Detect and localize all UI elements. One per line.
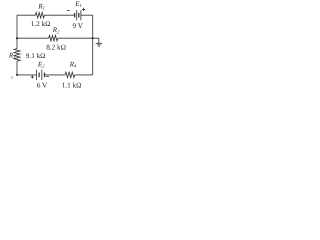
svg-text:9 V: 9 V (73, 22, 84, 30)
svg-text:9.1 kΩ: 9.1 kΩ (26, 52, 46, 60)
junction at right middle rail (92, 37, 94, 39)
svg-text:R2: R2 (52, 26, 60, 35)
wire top rail left segment (17, 14, 35, 16)
wire left vertical upper (16, 15, 18, 48)
svg-text:E2: E2 (37, 60, 45, 69)
resistor R2 (49, 36, 58, 41)
resistor R4 (65, 72, 75, 77)
wire top rail right segment (81, 14, 93, 16)
resistor R3 (14, 49, 20, 61)
svg-text:1.2 kΩ: 1.2 kΩ (31, 20, 51, 28)
svg-text:R1: R1 (37, 2, 45, 11)
wire middle rail left segment (17, 37, 49, 39)
svg-text:E1: E1 (74, 0, 82, 9)
wire ground branch (93, 38, 99, 43)
wire bottom rail left segment (17, 74, 36, 76)
wire bottom rail middle segment (45, 74, 66, 76)
svg-text:8.2 kΩ: 8.2 kΩ (46, 43, 66, 51)
svg-text:R4: R4 (69, 60, 77, 69)
wire left vertical lower (16, 61, 18, 75)
battery E1 plus sign (82, 8, 85, 11)
wire middle rail right segment (58, 37, 93, 39)
wire bottom rail right segment (75, 74, 93, 76)
svg-text:6 V: 6 V (37, 82, 48, 90)
battery E2 minus sign (46, 76, 49, 78)
resistor R1 (35, 13, 44, 18)
battery E1 (74, 13, 76, 18)
battery E2 (35, 70, 37, 80)
wire top rail middle segment (44, 14, 74, 16)
junction node a (16, 74, 18, 76)
wire right vertical (92, 15, 94, 75)
junction at left middle rail (16, 37, 18, 39)
svg-text:1.1 kΩ: 1.1 kΩ (62, 81, 82, 89)
battery E1 minus sign (67, 9, 70, 11)
battery E2 plus sign (31, 75, 34, 78)
svg-text:a: a (11, 75, 14, 81)
ground (96, 43, 103, 47)
